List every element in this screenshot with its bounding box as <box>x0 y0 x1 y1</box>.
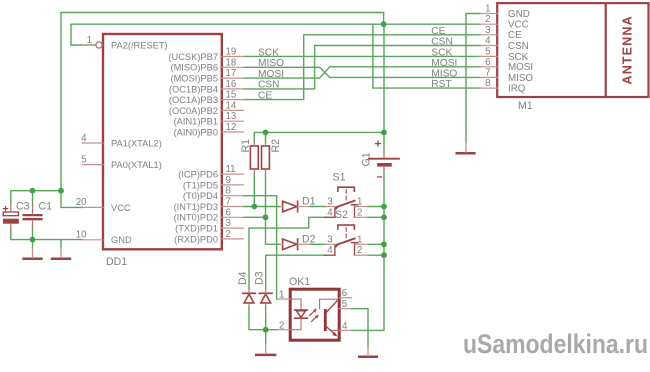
net labels left <box>258 47 284 101</box>
wire battery column lower to OK1 pin4 <box>352 171 385 331</box>
svg-text:(UCSK)PB7: (UCSK)PB7 <box>168 52 218 62</box>
OK1 light arrows <box>310 309 319 322</box>
wire MCU pin6 row to R2 bottom <box>244 216 266 218</box>
svg-text:GND: GND <box>111 235 132 245</box>
svg-text:CE: CE <box>431 26 445 37</box>
svg-text:D2: D2 <box>302 234 316 246</box>
wire D4 top to S1 pin4 jog <box>249 217 326 288</box>
wire MOSI MCU row with crossover <box>244 67 481 78</box>
resistor R1 <box>250 146 258 169</box>
svg-text:(INT1)PD3: (INT1)PD3 <box>174 202 218 212</box>
svg-text:CE: CE <box>508 30 522 41</box>
junction battery top <box>381 130 387 136</box>
svg-text:uSamodelkina.ru: uSamodelkina.ru <box>463 329 648 359</box>
net labels right <box>431 26 457 90</box>
svg-text:3: 3 <box>226 218 231 229</box>
wire R2 bottom lead <box>265 174 267 218</box>
junction VCC caps <box>58 188 64 194</box>
svg-text:14: 14 <box>226 100 237 111</box>
svg-text:CSN: CSN <box>431 37 453 48</box>
M1 pin names <box>508 9 533 95</box>
wire MCU pin8 to OK1 pin1 <box>244 196 278 299</box>
junction R1 bottom <box>251 204 257 210</box>
wire C1 top lead <box>32 191 34 206</box>
OK1 pin5 stub <box>339 308 351 310</box>
svg-text:16: 16 <box>226 79 237 90</box>
wire S2 pin2 to battery rail <box>368 254 384 256</box>
diode D2 <box>283 239 297 250</box>
svg-text:2: 2 <box>357 207 362 218</box>
svg-text:PA1(XTAL2): PA1(XTAL2) <box>111 138 162 148</box>
ground bar MCU GND <box>52 258 70 261</box>
wire C1 bottom lead <box>32 226 34 240</box>
svg-text:2: 2 <box>357 245 362 256</box>
S2 pin numbers <box>327 234 362 256</box>
svg-text:DD1: DD1 <box>106 256 127 268</box>
capacitor C1 <box>24 214 42 216</box>
OK1 pin4 stub <box>339 329 351 331</box>
IC DD1 box <box>103 34 222 249</box>
G1 minus sign <box>378 176 382 178</box>
svg-text:D1: D1 <box>302 196 316 208</box>
wire GND M1 pin1 to ground <box>466 14 481 143</box>
svg-text:1: 1 <box>87 35 92 46</box>
svg-text:6: 6 <box>485 57 490 68</box>
wire ground drop MCU <box>60 240 62 249</box>
IC right pin numbers <box>226 47 237 240</box>
svg-text:VCC: VCC <box>508 20 529 31</box>
wire D2 to S2 pin3 <box>310 243 327 245</box>
optocoupler OK1 box <box>290 289 339 340</box>
svg-text:(MISO)PB6: (MISO)PB6 <box>170 63 218 73</box>
svg-text:G1: G1 <box>361 152 373 166</box>
svg-text:1: 1 <box>357 197 362 208</box>
M1 pin stubs <box>480 14 498 89</box>
wire S1 pin2 to battery rail <box>368 216 384 218</box>
svg-text:12: 12 <box>226 122 237 133</box>
M1 pin numbers <box>485 4 491 90</box>
wire R1 R2 top row to battery <box>254 132 384 141</box>
wire RESET riser to MCU pin1 <box>71 24 96 45</box>
module M1 box <box>497 3 648 97</box>
diode D4 <box>243 292 256 294</box>
M1 divider <box>605 3 607 97</box>
svg-text:3: 3 <box>485 25 490 36</box>
wire R1 bottom lead <box>253 174 255 207</box>
wire VCC drop to M1 pin2 <box>383 13 385 25</box>
svg-text:(OC1A)PB3: (OC1A)PB3 <box>169 95 218 105</box>
svg-text:2: 2 <box>279 320 284 331</box>
svg-text:(INT0)PD2: (INT0)PD2 <box>174 213 218 223</box>
svg-text:ANTENNA: ANTENNA <box>621 15 635 84</box>
OK1 pin6 stub <box>339 297 351 299</box>
junction D3 bottom <box>263 327 269 333</box>
battery G1 <box>369 158 399 160</box>
svg-text:13: 13 <box>226 111 237 122</box>
capacitor C3 polarized <box>3 212 18 216</box>
wire VCC cap branch <box>11 191 61 204</box>
junction R2 top <box>263 130 269 136</box>
wire SCK row <box>244 55 481 57</box>
svg-text:8: 8 <box>226 186 231 197</box>
svg-text:CSN: CSN <box>508 41 529 52</box>
svg-text:CE: CE <box>258 90 272 101</box>
svg-text:3: 3 <box>327 197 332 208</box>
wire S2 pin1 to battery rail <box>368 243 384 245</box>
svg-text:CSN: CSN <box>258 80 280 91</box>
OK1 pin2 stub <box>278 329 291 331</box>
right pin stubs upper <box>222 57 244 239</box>
resistor R2 <box>262 146 270 169</box>
svg-text:IRQ: IRQ <box>508 84 526 95</box>
svg-text:(T1)PD5: (T1)PD5 <box>183 180 218 190</box>
svg-text:4: 4 <box>342 321 348 332</box>
switch S1 <box>325 187 368 217</box>
svg-text:11: 11 <box>226 164 236 175</box>
svg-text:(ICP)PD6: (ICP)PD6 <box>178 170 218 180</box>
svg-text:(OC1B)PB4: (OC1B)PB4 <box>169 84 218 94</box>
OK1 internal LED <box>292 299 307 330</box>
OK1 internal phototransistor <box>320 299 340 336</box>
svg-text:(RXD)PD0: (RXD)PD0 <box>174 234 218 244</box>
junction S2 pin2 <box>381 252 387 258</box>
svg-text:(AIN1)PB1: (AIN1)PB1 <box>174 117 218 127</box>
svg-text:5: 5 <box>342 299 347 310</box>
G1 plus sign <box>376 143 381 145</box>
svg-text:7: 7 <box>226 197 231 208</box>
pin 10 stub <box>83 239 104 241</box>
junction caps bottom <box>30 237 36 243</box>
wire R2 top lead <box>265 132 267 141</box>
wire VCC top rail <box>61 13 384 208</box>
svg-text:10: 10 <box>76 230 87 241</box>
svg-text:M1: M1 <box>518 100 533 112</box>
junction S1 pin2 <box>381 214 387 220</box>
svg-text:3: 3 <box>327 234 332 245</box>
svg-text:1: 1 <box>357 234 362 245</box>
IC right pin names <box>168 52 218 244</box>
svg-text:C1: C1 <box>39 201 53 213</box>
svg-text:(OC0A)PB2: (OC0A)PB2 <box>169 106 218 116</box>
svg-text:S1: S1 <box>333 172 346 184</box>
wire D3 bottom junction <box>265 308 267 330</box>
svg-text:20: 20 <box>76 197 87 208</box>
wire D4 bottom to OK1 pin2 row <box>249 308 278 330</box>
svg-text:SCK: SCK <box>431 48 452 59</box>
pin 20 stub <box>83 206 104 208</box>
svg-text:MOSI: MOSI <box>508 62 533 73</box>
svg-text:4: 4 <box>81 133 87 144</box>
svg-text:9: 9 <box>226 175 231 186</box>
svg-text:VCC: VCC <box>111 203 131 213</box>
svg-text:PA0(XTAL1): PA0(XTAL1) <box>111 160 162 170</box>
wire RESET/VCC row to M1 <box>71 23 481 25</box>
wire MCU pin7 row to D1 <box>244 206 281 208</box>
svg-text:4: 4 <box>485 36 491 47</box>
diode D1 <box>283 201 297 212</box>
svg-text:R1: R1 <box>240 139 252 153</box>
svg-text:5: 5 <box>485 46 490 57</box>
junction S2 pin1 <box>381 241 387 247</box>
svg-text:(T0)PD4: (T0)PD4 <box>183 191 218 201</box>
svg-text:19: 19 <box>226 47 237 58</box>
svg-text:MISO: MISO <box>431 69 457 80</box>
junction S1 pin1 <box>381 204 387 210</box>
svg-text:SCK: SCK <box>508 52 529 63</box>
svg-text:4: 4 <box>327 245 333 256</box>
svg-text:D4: D4 <box>237 271 249 285</box>
svg-text:6: 6 <box>342 288 347 299</box>
svg-text:18: 18 <box>226 57 237 68</box>
svg-text:(AIN0)PB0: (AIN0)PB0 <box>174 127 218 137</box>
svg-text:1: 1 <box>279 290 284 301</box>
svg-text:GND: GND <box>508 9 530 20</box>
svg-text:2: 2 <box>485 14 490 25</box>
C3 plus sign <box>3 208 7 210</box>
svg-text:(TXD)PD1: (TXD)PD1 <box>175 224 218 234</box>
junction R2 bottom <box>263 214 269 220</box>
wire D3 top to S2 pin4 <box>266 255 326 288</box>
junction C1 top <box>30 188 36 194</box>
S1 pin numbers <box>327 197 362 219</box>
ground bar M1 GND <box>457 152 475 155</box>
ground bar C3 C1 <box>24 258 42 261</box>
wire OK1 pin5 to ground <box>352 309 369 346</box>
wire D1 to S1 pin3 <box>310 206 327 208</box>
svg-text:1: 1 <box>485 4 490 15</box>
wire CE row riser <box>244 35 481 100</box>
svg-text:MISO: MISO <box>258 58 284 69</box>
svg-text:4: 4 <box>327 207 333 218</box>
wire ground drop left <box>32 240 34 249</box>
pin 1 stub with bubble <box>83 44 96 46</box>
svg-text:15: 15 <box>226 90 237 101</box>
svg-text:C3: C3 <box>16 201 30 213</box>
svg-text:2: 2 <box>226 229 231 240</box>
pin 4 stub <box>83 142 104 144</box>
svg-text:17: 17 <box>226 68 237 79</box>
wire MISO MCU row with crossover <box>244 67 481 77</box>
svg-text:7: 7 <box>485 67 490 78</box>
svg-text:(MOSI)PB5: (MOSI)PB5 <box>170 74 218 84</box>
svg-text:6: 6 <box>226 207 231 218</box>
IC left pin numbers <box>76 35 92 241</box>
svg-text:8: 8 <box>485 78 490 89</box>
svg-text:MOSI: MOSI <box>258 69 284 80</box>
svg-text:SCK: SCK <box>258 47 279 58</box>
wire ground drop D3 <box>265 330 267 345</box>
svg-text:RST: RST <box>431 79 451 90</box>
OK1 pin1 stub <box>278 298 291 300</box>
ground bar OK1 pin5 <box>359 356 377 359</box>
svg-text:PA2(/RESET): PA2(/RESET) <box>111 40 168 50</box>
svg-text:MOSI: MOSI <box>431 58 457 69</box>
wire S1 pin1 to battery rail <box>368 206 384 208</box>
wire CSN row riser <box>244 46 481 89</box>
switch S2 <box>325 225 368 255</box>
svg-text:OK1: OK1 <box>289 276 310 288</box>
wire R2 drop to D2 <box>266 217 281 244</box>
svg-text:S2: S2 <box>335 209 348 221</box>
svg-text:R2: R2 <box>270 139 282 153</box>
svg-text:5: 5 <box>81 154 86 165</box>
svg-text:MISO: MISO <box>508 73 533 84</box>
wire GND caps bottom row <box>11 229 83 240</box>
OK1 pin numbers <box>279 288 348 332</box>
wire battery column upper <box>383 24 385 152</box>
wire RST riser to M1 pin8 <box>373 24 481 88</box>
pin 5 stub <box>83 164 104 166</box>
junction VCC M1 <box>381 21 387 27</box>
diode D3 <box>259 292 272 294</box>
svg-text:D3: D3 <box>253 271 265 285</box>
ground bar D3 D4 <box>256 354 275 357</box>
